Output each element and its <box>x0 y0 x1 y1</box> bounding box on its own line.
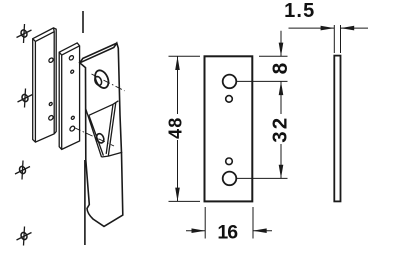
svg-text:8: 8 <box>269 62 292 74</box>
svg-text:1.5: 1.5 <box>284 0 315 22</box>
svg-text:32: 32 <box>269 116 292 143</box>
svg-text:48: 48 <box>166 117 186 139</box>
svg-text:16: 16 <box>217 222 238 244</box>
